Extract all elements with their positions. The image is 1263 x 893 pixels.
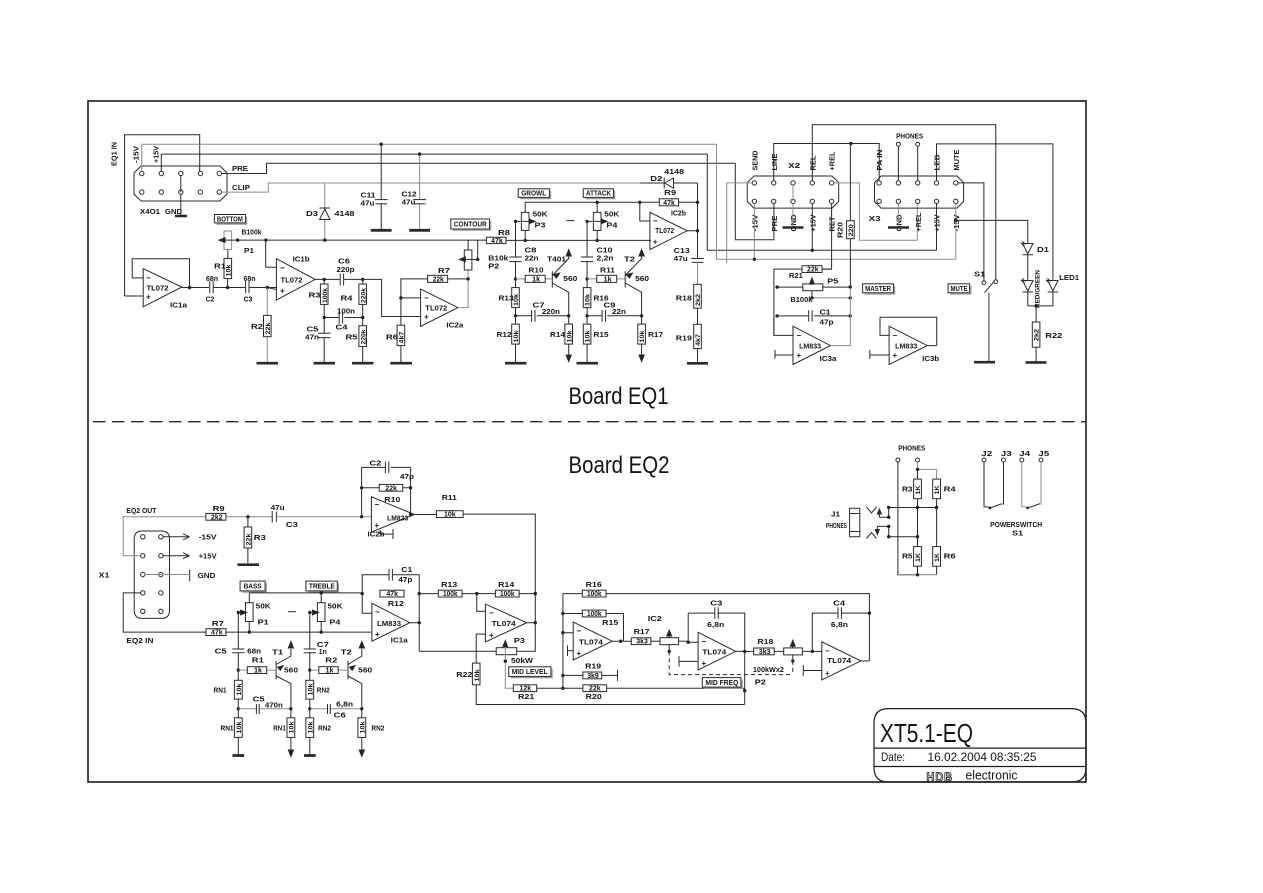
svg-text:10k: 10k <box>226 264 233 276</box>
svg-text:−: − <box>280 264 285 273</box>
node junction R1 bottom <box>226 286 229 289</box>
svg-text:MUTE: MUTE <box>954 149 961 170</box>
svg-text:R5: R5 <box>902 553 913 560</box>
wire TL074 output <box>527 622 536 624</box>
svg-text:LM833: LM833 <box>799 343 821 350</box>
resistor R15 100k <box>563 614 624 642</box>
svg-text:+15V: +15V <box>810 214 817 231</box>
label GROWL box <box>520 191 550 199</box>
svg-text:100k: 100k <box>587 591 602 598</box>
svg-text:22k: 22k <box>589 686 601 693</box>
svg-text:CLIP: CLIP <box>232 185 250 192</box>
svg-text:1K: 1K <box>934 485 941 494</box>
label BOTTOM box <box>216 217 246 225</box>
svg-text:22k: 22k <box>246 533 253 545</box>
svg-text:C2: C2 <box>369 461 381 468</box>
dash separator <box>288 611 296 613</box>
svg-text:220k: 220k <box>360 288 367 303</box>
svg-text:TL072: TL072 <box>655 228 674 235</box>
svg-text:+: + <box>375 521 380 530</box>
diode D3 4148 <box>324 183 326 240</box>
switch S1 section b <box>1022 462 1026 507</box>
svg-text:R10: R10 <box>529 268 544 275</box>
ground below bass cell <box>233 754 245 757</box>
capacitor C13 47u <box>691 258 704 260</box>
svg-text:22k: 22k <box>385 485 397 492</box>
transistor T2 560 (EQ2) <box>347 661 349 680</box>
svg-text:R9: R9 <box>664 190 676 197</box>
svg-text:T1: T1 <box>272 649 283 656</box>
svg-text:C4: C4 <box>336 325 348 332</box>
svg-text:CONTOUR: CONTOUR <box>454 222 487 229</box>
resistor R10 22k <box>362 487 411 489</box>
svg-text:PHONES: PHONES <box>826 523 847 530</box>
capacitor C11 47u <box>380 144 382 229</box>
wire X2 -15V pin to rail B <box>753 204 755 260</box>
svg-text:R3: R3 <box>309 293 321 300</box>
potentiometer P4 50K (EQ2 treble) <box>320 593 322 632</box>
svg-text:TL072: TL072 <box>281 278 303 285</box>
svg-text:electronic: electronic <box>966 769 1018 783</box>
svg-text:T2: T2 <box>341 649 352 656</box>
svg-text:J5: J5 <box>1038 451 1049 458</box>
svg-text:+: + <box>577 649 582 658</box>
svg-text:+: + <box>825 669 830 678</box>
svg-text:+: + <box>797 351 802 360</box>
wire IC1a output rail <box>410 594 419 652</box>
resistor R22 2k2 <box>1034 304 1037 307</box>
capacitor C9 22n <box>587 315 642 317</box>
svg-text:10k: 10k <box>474 669 481 681</box>
svg-text:47n: 47n <box>305 335 319 342</box>
svg-text:100k: 100k <box>587 611 602 618</box>
svg-text:3k9: 3k9 <box>587 673 599 680</box>
svg-text:RN1: RN1 <box>273 726 286 733</box>
svg-text:C10: C10 <box>597 248 613 255</box>
wire R3 column <box>917 469 919 574</box>
phones pin circles <box>896 142 900 146</box>
junction R3 <box>226 516 272 518</box>
wire IC3a minus input <box>774 317 793 336</box>
transistor T2 560 <box>624 271 626 288</box>
op-amp IC1b TL072 <box>276 259 315 300</box>
svg-text:P5: P5 <box>827 279 838 286</box>
svg-text:TL072: TL072 <box>425 306 447 313</box>
wire CLIP rail to D2/R9 <box>640 202 650 221</box>
svg-text:R3: R3 <box>902 487 913 494</box>
svg-text:10k: 10k <box>513 330 520 342</box>
svg-text:10k: 10k <box>288 721 295 733</box>
ground tick IC3b plus input <box>870 350 889 359</box>
wire gang1 to C3 node <box>687 613 698 642</box>
svg-text:P4: P4 <box>606 223 617 230</box>
capacitor C6 6,8n <box>310 708 362 710</box>
svg-text:LM833: LM833 <box>895 343 917 350</box>
LED LED1 <box>1048 281 1058 293</box>
wire IC1b plus input <box>267 288 276 290</box>
svg-text:X3: X3 <box>869 216 881 223</box>
op-amp TL074 (output stage) <box>822 642 861 680</box>
svg-text:R13: R13 <box>499 296 514 303</box>
svg-text:R9: R9 <box>213 506 225 513</box>
svg-text:SEND: SEND <box>753 151 760 171</box>
svg-text:50kW: 50kW <box>511 658 533 665</box>
svg-text:-15V: -15V <box>134 146 141 163</box>
svg-text:R22: R22 <box>456 672 472 679</box>
resistor R5 220k <box>362 318 364 363</box>
svg-text:560: 560 <box>563 276 577 283</box>
svg-text:R17: R17 <box>648 332 663 339</box>
svg-text:R14: R14 <box>498 582 514 589</box>
svg-text:−: − <box>146 274 151 283</box>
resistor R14 10k <box>568 316 570 356</box>
svg-text:PA IN: PA IN <box>877 150 884 171</box>
svg-text:B10k: B10k <box>488 256 508 263</box>
svg-text:1k: 1k <box>254 668 262 675</box>
svg-text:R1: R1 <box>252 658 264 665</box>
wire CLIP <box>222 183 665 192</box>
op-amp IC1a TL072 <box>143 269 182 307</box>
ground tick after R19 <box>617 670 619 681</box>
svg-text:Board EQ2: Board EQ2 <box>569 452 670 479</box>
ground below R2 <box>257 362 279 365</box>
svg-text:P2: P2 <box>755 680 766 687</box>
svg-text:R18: R18 <box>676 295 692 302</box>
svg-text:220n: 220n <box>542 309 560 316</box>
junction C9 right / R17 <box>640 314 643 317</box>
title block frame <box>874 709 1086 782</box>
svg-text:220p: 220p <box>337 267 355 274</box>
resistor R20 22k <box>563 687 745 689</box>
svg-text:P3: P3 <box>514 638 525 645</box>
wire IC1a feedback loop <box>132 259 189 287</box>
svg-text:−: − <box>424 294 429 303</box>
svg-text:P2: P2 <box>488 263 499 270</box>
svg-text:2k2: 2k2 <box>211 514 223 521</box>
wire lower loop with P3 <box>419 594 535 652</box>
wire P1 bottom to R1 <box>227 249 229 258</box>
svg-text:TREBLE: TREBLE <box>309 584 335 591</box>
svg-text:100k: 100k <box>322 288 329 303</box>
resistor RN1 10k emitter <box>290 709 292 751</box>
svg-text:TL072: TL072 <box>147 286 169 293</box>
svg-text:1k: 1k <box>326 668 334 675</box>
svg-text:R12: R12 <box>497 332 512 339</box>
label MUTE box <box>950 286 971 294</box>
svg-text:10k: 10k <box>585 330 592 342</box>
capacitor C3 47u <box>271 511 273 523</box>
svg-text:12k: 12k <box>520 686 532 693</box>
svg-text:+: + <box>489 631 494 640</box>
wire IC1b minus input from main bus <box>266 240 277 267</box>
svg-text:50K: 50K <box>533 211 548 218</box>
wire IC2a minus input <box>401 297 421 299</box>
svg-text:X4O1: X4O1 <box>140 209 160 216</box>
svg-text:+15V: +15V <box>199 553 217 560</box>
svg-text:+: + <box>893 351 898 360</box>
svg-text:16.02.2004 08:35:25: 16.02.2004 08:35:25 <box>928 750 1037 764</box>
svg-text:+15V: +15V <box>154 146 161 163</box>
potentiometer P2 B10k <box>464 250 472 270</box>
resistor R18 2k2 <box>694 284 702 308</box>
svg-text:1K: 1K <box>915 485 922 494</box>
svg-text:47p: 47p <box>398 577 412 584</box>
svg-text:HDB: HDB <box>927 770 954 784</box>
svg-text:10k: 10k <box>307 721 314 733</box>
wire TL074 minus input <box>563 632 573 634</box>
svg-text:10k: 10k <box>639 330 646 342</box>
wire X2 +15V pin to rail A <box>811 204 813 251</box>
svg-text:T2: T2 <box>624 257 635 264</box>
svg-text:+: + <box>424 313 429 322</box>
wire IC1a output <box>182 287 209 289</box>
wire EQ2 IN bus to IC1a plus <box>226 631 372 633</box>
wire output stage to feedback rail <box>861 660 870 662</box>
wire IC2b output rail <box>687 183 697 258</box>
resistor R14 100k <box>495 590 519 597</box>
capacitor C7 1n (treble cell) <box>309 613 311 671</box>
svg-text:R2: R2 <box>325 658 337 665</box>
svg-text:IC2b: IC2b <box>368 532 385 539</box>
label MASTER box <box>865 286 895 294</box>
svg-text:R17: R17 <box>634 629 650 636</box>
svg-text:EQ2 IN: EQ2 IN <box>126 638 153 645</box>
svg-text:LED: LED <box>935 155 942 171</box>
svg-text:S1: S1 <box>974 272 985 279</box>
wire IC2b output / feedback right rail <box>411 467 437 514</box>
svg-text:R19: R19 <box>676 335 692 342</box>
wire P3/P4 tops to IC2b minus rail <box>525 201 640 203</box>
svg-text:R11: R11 <box>442 495 457 502</box>
svg-text:10k: 10k <box>513 294 520 306</box>
svg-text:TL074: TL074 <box>827 658 851 665</box>
svg-text:47k: 47k <box>211 630 223 637</box>
resistor RN1 10k upper <box>237 670 239 709</box>
capacitor C3 68n <box>246 281 249 293</box>
svg-text:2,2n: 2,2n <box>597 256 614 263</box>
svg-text:68n: 68n <box>244 276 256 283</box>
resistor R3 22k <box>247 517 249 563</box>
svg-text:S1: S1 <box>1012 531 1023 538</box>
svg-text:−: − <box>797 331 802 340</box>
svg-text:47k: 47k <box>386 591 398 598</box>
potentiometer P3 50K <box>524 202 526 212</box>
svg-text:B100k: B100k <box>242 230 262 237</box>
resistor R7 22k feedback <box>401 279 468 298</box>
svg-text:4k7: 4k7 <box>399 331 406 343</box>
svg-text:C5: C5 <box>253 696 265 703</box>
svg-text:−: − <box>893 331 898 340</box>
svg-text:ATTACK: ATTACK <box>586 191 611 198</box>
svg-text:C11: C11 <box>361 193 376 200</box>
svg-text:IC2: IC2 <box>648 616 662 623</box>
svg-text:47u: 47u <box>674 256 688 263</box>
svg-text:R21: R21 <box>518 694 534 701</box>
svg-text:50K: 50K <box>328 604 343 611</box>
svg-text:560: 560 <box>284 667 298 674</box>
border frame <box>88 101 1086 782</box>
svg-text:IC2a: IC2a <box>446 323 463 330</box>
resistor RN2 10k emitter <box>361 709 363 751</box>
svg-text:1n: 1n <box>319 649 327 656</box>
connector X2 <box>747 176 839 208</box>
ground tick IC3a plus input <box>775 350 793 359</box>
svg-text:10k: 10k <box>307 683 314 695</box>
svg-text:RED/GREEN: RED/GREEN <box>1035 270 1042 308</box>
svg-text:RN1: RN1 <box>214 688 227 695</box>
svg-text:R4: R4 <box>944 487 956 494</box>
label MID LEVEL box <box>511 669 552 678</box>
svg-text:−: − <box>653 217 658 226</box>
resistor R21 12k <box>513 685 536 692</box>
svg-text:Date:: Date: <box>881 750 905 764</box>
svg-text:MASTER: MASTER <box>865 286 891 293</box>
svg-text:6,8n: 6,8n <box>707 622 724 629</box>
resistor R22 10k <box>472 663 480 685</box>
svg-text:EQ1 IN: EQ1 IN <box>112 142 119 166</box>
svg-text:C8: C8 <box>525 248 537 255</box>
wire IC2a output to P2 rail <box>458 270 468 308</box>
resistor R13 100k <box>419 593 495 595</box>
svg-text:P4: P4 <box>329 619 340 626</box>
arrow down below R14 <box>566 355 571 362</box>
wire C6/R4 node to IC2a plus <box>363 279 421 316</box>
wire R8 to IC2b plus <box>506 239 651 241</box>
ground below X4O1 pin3 <box>180 176 182 216</box>
wire IC3a output rail <box>830 288 850 346</box>
switch S1 <box>982 281 986 285</box>
svg-text:LM833: LM833 <box>387 515 408 522</box>
capacitor C5 68n (bass cell) <box>237 613 239 671</box>
svg-text:X2: X2 <box>788 163 800 170</box>
wire X2 SEND <box>727 183 753 263</box>
resistor R11 10k <box>436 511 463 518</box>
svg-text:RN2: RN2 <box>317 688 330 695</box>
wire R11 output to EQ2 summing rail <box>463 514 535 594</box>
op-amp TL074 (IC2 input stage) <box>573 622 612 660</box>
wire bottom rail <box>898 574 937 576</box>
resistor R19 4k7 <box>697 308 699 362</box>
capacitor C1 47p (EQ2) <box>362 575 419 594</box>
capacitor C4 100n <box>324 317 363 319</box>
svg-text:R7: R7 <box>438 268 450 275</box>
potentiometer P1 50K (EQ2 bass) <box>248 593 250 632</box>
svg-text:6,8n: 6,8n <box>831 622 848 629</box>
resistor R10 1k <box>516 278 553 280</box>
wire EQ2 OUT <box>123 517 206 556</box>
wire X3 LED pin up to LED1 <box>937 144 1053 280</box>
resistor R17 10k <box>641 316 643 356</box>
resistor RN1 10k lower <box>237 709 239 755</box>
resistor R5 1K <box>914 547 922 567</box>
label MID FREQ box <box>704 680 742 689</box>
resistor R17 3k3 <box>631 638 651 645</box>
resistor R6 4k7 <box>400 298 402 362</box>
svg-text:-15V: -15V <box>199 535 217 542</box>
svg-text:EQ2 OUT: EQ2 OUT <box>126 508 157 515</box>
transistor T401 560 <box>551 271 553 288</box>
svg-text:BASS: BASS <box>244 584 262 591</box>
potentiometer P3 50kW mid level <box>496 648 517 655</box>
capacitor C10 2,2n <box>586 221 588 279</box>
switch S1 section a <box>984 462 988 507</box>
diode D2 4148 <box>640 182 698 184</box>
svg-text:+: + <box>280 287 285 296</box>
ground below treble cell <box>304 754 316 757</box>
svg-text:47u: 47u <box>361 201 375 208</box>
svg-text:4k7: 4k7 <box>695 334 702 346</box>
svg-text:J4: J4 <box>1019 451 1030 458</box>
svg-text:47k: 47k <box>491 238 503 245</box>
svg-text:T401: T401 <box>547 257 566 264</box>
wire TL074 minus input <box>477 594 486 612</box>
resistor R2 1k (EQ2) <box>310 669 347 671</box>
junction R3 bottom / C5 <box>323 316 326 319</box>
svg-text:D2: D2 <box>650 176 662 183</box>
dashed gang line P2 <box>669 651 793 674</box>
wire left phones rail <box>898 462 918 575</box>
svg-text:R6: R6 <box>944 553 956 560</box>
wire EQ2 IN <box>123 593 206 632</box>
svg-text:10k: 10k <box>444 512 456 519</box>
svg-text:+: + <box>146 293 151 302</box>
svg-text:470n: 470n <box>265 702 283 709</box>
svg-text:IC2b: IC2b <box>671 211 686 218</box>
svg-text:GND: GND <box>198 573 216 580</box>
svg-text:LM833: LM833 <box>377 621 401 628</box>
svg-text:+: + <box>653 238 658 247</box>
svg-text:IC1b: IC1b <box>293 257 310 264</box>
node T1 emitter / C5 right <box>289 707 292 710</box>
capacitor C12 47u <box>419 154 421 229</box>
resistor R21 22k <box>774 269 832 335</box>
resistor RN2 10k upper <box>309 670 311 709</box>
wire IC1a minus input <box>362 594 372 614</box>
svg-text:PHONES: PHONES <box>898 445 925 452</box>
svg-text:C12: C12 <box>402 192 417 199</box>
svg-text:4148: 4148 <box>664 169 684 176</box>
resistor R16 100k <box>563 594 870 661</box>
wire IC3b feedback loop <box>880 317 937 345</box>
svg-text:1K: 1K <box>934 553 941 562</box>
resistor R3 1K (phones) <box>914 479 922 499</box>
wire +15V rail <box>161 154 707 171</box>
svg-text:R12: R12 <box>388 601 404 608</box>
op-amp IC2a TL072 <box>421 289 458 326</box>
LED D1 red/green pair <box>1023 244 1033 255</box>
svg-text:R21: R21 <box>789 273 803 280</box>
svg-text:MID LEVEL: MID LEVEL <box>512 669 549 676</box>
svg-text:−: − <box>702 637 707 646</box>
svg-text:+: + <box>375 630 380 639</box>
potentiometer P5 B100k <box>803 284 823 291</box>
svg-text:C1: C1 <box>820 310 831 317</box>
arrow +15V supply X1 <box>163 553 189 559</box>
svg-text:R2: R2 <box>251 324 263 331</box>
capacitor C2 68n <box>210 281 213 293</box>
resistor R4 220k <box>362 279 364 317</box>
junction R4 bottom / R5 <box>361 316 364 319</box>
wire X2 REL up and to S1 <box>812 125 996 280</box>
svg-text:47u: 47u <box>271 505 285 512</box>
potentiometer P2 gang 1 100k <box>660 638 679 645</box>
arrow down treble emitter <box>359 750 364 757</box>
op-amp TL074 (band-pass stage) <box>698 632 736 670</box>
ground tick band-pass plus input <box>679 656 698 667</box>
svg-text:R22: R22 <box>1045 333 1062 340</box>
svg-text:IC1a: IC1a <box>170 303 187 310</box>
svg-text:10k: 10k <box>236 721 243 733</box>
